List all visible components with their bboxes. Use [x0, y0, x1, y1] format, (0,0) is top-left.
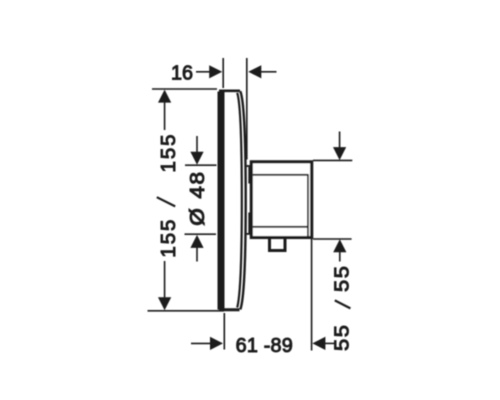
knob front inner line: [307, 174, 309, 236]
plate front outer curve: [240, 91, 245, 309]
dimension 55/55: top arrow: [339, 132, 341, 149]
knob inner bottom line: [253, 226, 308, 228]
dimension Ø48: bottom tick: [185, 233, 217, 235]
dimension 61-89: left arrow: [191, 342, 211, 344]
svg-text:55: 55: [331, 323, 353, 351]
svg-text:61 -89: 61 -89: [236, 335, 293, 357]
dimension 16: left arrow: [196, 71, 210, 73]
dimension Ø48: top arrow: [196, 136, 198, 153]
dimension 16: left extension line: [222, 58, 224, 88]
dimension 155/155: dimension line upper segment: [164, 100, 166, 130]
knob sleeve lower side mark: [248, 213, 250, 234]
plate bottom edge: [219, 308, 240, 311]
dimension Ø48: bottom arrow: [190, 235, 203, 248]
svg-text:155: 155: [158, 218, 180, 258]
knob inner top line: [253, 174, 308, 176]
dimension 61-89: right extension line: [311, 239, 313, 351]
plate front inner curve: [237, 93, 242, 308]
dimension Ø48: top tick: [185, 164, 217, 166]
plate top edge: [219, 90, 240, 93]
dimension 61-89: right arrow: [312, 337, 325, 350]
dimension 155/155: top arrowhead: [158, 90, 171, 103]
svg-text:55: 55: [331, 264, 353, 292]
svg-text:Ø 48: Ø 48: [187, 170, 209, 225]
svg-text:16: 16: [171, 63, 193, 85]
escutcheon plate back edge (wall side): [218, 92, 225, 310]
knob sleeve upper side mark: [248, 167, 250, 184]
dimension 155/155: bottom extension line: [148, 310, 225, 312]
svg-text:155: 155: [158, 133, 180, 173]
knob sleeve bottom edge: [246, 233, 251, 235]
dimension 61-89: left extension line: [223, 313, 225, 350]
spout notch below knob: [270, 239, 286, 251]
dimension 155/155: bottom arrowhead: [158, 297, 171, 310]
dimension 155/155: top extension line: [152, 88, 217, 90]
dimension 155/155: dimension line lower segment: [164, 261, 166, 299]
dimension 16: right extension line: [246, 58, 248, 160]
knob sleeve top edge: [246, 165, 251, 167]
dimension 55/55: bottom extension line: [313, 238, 352, 240]
knob (handle) outline: [251, 162, 311, 238]
dimension 16: right arrow: [248, 65, 261, 78]
dimension 55/55: bottom arrow: [333, 239, 346, 252]
dimension 55/55: top extension line: [313, 159, 352, 161]
